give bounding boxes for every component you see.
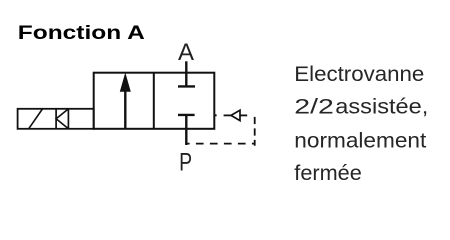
pilot open triangle — [231, 110, 240, 120]
svg-text:2/2: 2/2 — [294, 94, 334, 119]
svg-text:P: P — [179, 149, 192, 177]
coil divider 2 — [67, 109, 69, 129]
port A seat crossbar — [178, 85, 195, 87]
coil slash — [29, 109, 43, 129]
svg-text:A: A — [178, 39, 194, 66]
pilot arrow line left segment — [224, 114, 232, 116]
svg-text:Electrovanne: Electrovanne — [294, 61, 424, 86]
coil divider 1 — [55, 109, 57, 129]
svg-text:assistée,: assistée, — [335, 94, 428, 119]
flow arrow — [120, 74, 130, 129]
svg-text:Fonction A: Fonction A — [18, 22, 145, 44]
valve position divider — [153, 73, 155, 129]
pilot tick on valve right side — [214, 114, 217, 116]
pilot arrow line right segment — [240, 114, 247, 116]
svg-text:fermée: fermée — [294, 160, 362, 185]
svg-text:normalement: normalement — [294, 127, 426, 152]
coil box (solenoid + pilot) — [18, 109, 94, 129]
description text — [294, 61, 428, 185]
port P seat crossbar — [178, 114, 195, 116]
pilot triangle in coil — [56, 109, 68, 129]
pilot dashed line vertical — [254, 117, 256, 146]
pilot dashed line horizontal — [186, 143, 254, 145]
valve body outline — [94, 73, 215, 129]
port P line — [185, 115, 187, 145]
port A line — [185, 61, 187, 86]
